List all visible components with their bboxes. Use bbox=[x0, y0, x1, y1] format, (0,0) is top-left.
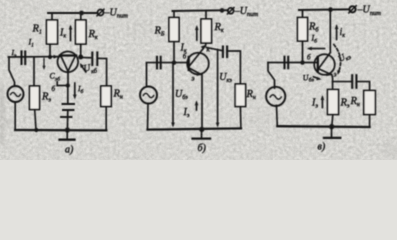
wire Re top lead bbox=[33, 57, 35, 86]
arrow I1 down bbox=[43, 59, 46, 71]
wire base cap leads bbox=[67, 86, 69, 105]
resistor R1 bbox=[47, 20, 58, 44]
ground symbol bbox=[60, 130, 75, 140]
node base junction bbox=[172, 60, 177, 65]
arrow Ib left bbox=[307, 47, 325, 51]
svg-text:б): б) bbox=[198, 143, 207, 154]
svg-text:б: б bbox=[307, 54, 311, 62]
wire base input bbox=[147, 62, 189, 64]
supply rail (top wire) bbox=[48, 12, 97, 14]
wire base input bbox=[268, 62, 317, 64]
supply rail bbox=[173, 9, 229, 12]
arrow Ie up bbox=[195, 100, 199, 110]
resistor Rk bbox=[76, 20, 87, 44]
resistor Re bbox=[30, 86, 40, 110]
node ground junction bbox=[329, 124, 334, 129]
wire cap to Rn bbox=[357, 82, 370, 91]
wire Rk top stub bbox=[205, 11, 207, 20]
wire R1 bottom lead bbox=[49, 44, 51, 57]
capacitor C_b plates bbox=[61, 104, 74, 117]
wire cap to Rn bbox=[98, 58, 107, 86]
wire RB bottom lead bbox=[173, 42, 175, 63]
wire Rn bottom lead bbox=[369, 115, 371, 128]
terminal -U pit bbox=[349, 6, 356, 13]
node base junction bbox=[300, 60, 305, 65]
svg-text:э: э bbox=[334, 71, 337, 79]
wire R2 top stub bbox=[80, 13, 82, 20]
arrow emitter bbox=[196, 72, 202, 76]
wire Rb bottom lead bbox=[302, 41, 304, 63]
arrow Ik up bbox=[69, 25, 73, 41]
node Re-ground junction bbox=[34, 128, 38, 132]
node rail junction bbox=[328, 7, 333, 12]
resistor Re bbox=[328, 90, 339, 115]
resistor Rk bbox=[201, 19, 212, 43]
ground rail bottom wire bbox=[277, 125, 369, 128]
wire emitter down bbox=[201, 75, 203, 130]
svg-text:б: б bbox=[183, 53, 187, 61]
terminal -U pit bbox=[97, 9, 104, 16]
node ground junction bbox=[65, 127, 70, 132]
ground symbol bbox=[324, 127, 340, 138]
capacitor C1 input bbox=[285, 57, 289, 68]
generator G1 bbox=[8, 57, 24, 130]
arrow U_be bbox=[314, 77, 322, 81]
tick bbox=[56, 82, 58, 86]
wire emitter input bbox=[9, 56, 60, 58]
arrow U_ke dashed bbox=[334, 45, 341, 75]
transistor VT1 bbox=[58, 52, 79, 73]
wire Rn bottom lead bbox=[105, 107, 107, 131]
resistor Rn bbox=[235, 84, 245, 107]
ground rail bottom wire bbox=[148, 128, 242, 129]
resistor Rn bbox=[364, 91, 376, 115]
wire base lead down bbox=[67, 70, 69, 85]
svg-text:э: э bbox=[192, 75, 195, 83]
capacitor C2 output bbox=[92, 53, 97, 66]
wire Re bottom lead bbox=[35, 110, 36, 131]
ground rail bottom wire bbox=[15, 129, 106, 132]
wire collector stub bbox=[205, 43, 208, 46]
generator G2 bbox=[140, 63, 157, 130]
arrow Ik up bbox=[195, 25, 199, 40]
wire collector down bbox=[329, 10, 331, 53]
arrow Ie up bbox=[321, 95, 325, 108]
node rail junction bbox=[220, 8, 225, 13]
arrow Ik up bbox=[335, 24, 339, 40]
transistor VT2 bbox=[187, 46, 209, 74]
wire cap to Rn bbox=[227, 51, 240, 84]
emitter arrow bbox=[54, 55, 59, 59]
arrow Ib down bbox=[73, 83, 77, 100]
wire R1 top stub bbox=[51, 13, 53, 20]
terminal -U pit bbox=[227, 8, 234, 14]
capacitor C2 output bbox=[223, 47, 227, 58]
wire emitter node bbox=[331, 75, 334, 90]
wire collector to cap bbox=[80, 44, 82, 57]
node emitter-R1 junction bbox=[48, 55, 52, 59]
supply rail bbox=[299, 8, 348, 11]
arrow U_kb bbox=[80, 63, 86, 72]
capacitor C1 input bbox=[157, 57, 161, 69]
node junction on rail bbox=[79, 11, 84, 16]
paper background bbox=[0, 0, 397, 160]
resistor Rn bbox=[101, 86, 111, 107]
node base junction bbox=[66, 83, 70, 87]
transistor VT3 bbox=[314, 53, 335, 75]
arrow collector bbox=[201, 45, 206, 50]
resistor Rb bbox=[298, 18, 308, 42]
arrow emitter bbox=[326, 73, 332, 77]
wire Rb top stub bbox=[302, 10, 304, 18]
capacitor C2 output bbox=[352, 75, 356, 88]
wire emitter output tap bbox=[333, 81, 351, 83]
svg-text:б: б bbox=[52, 85, 56, 93]
wire base horizontal tick bbox=[57, 85, 68, 87]
wire Re bottom lead bbox=[332, 115, 333, 127]
capacitor C1 input bbox=[22, 52, 26, 65]
ground symbol bbox=[193, 129, 211, 138]
svg-text:в): в) bbox=[318, 142, 326, 153]
arrow U_be down bbox=[171, 64, 175, 128]
node collector junction bbox=[78, 55, 83, 60]
arrow U_ke down bbox=[216, 50, 220, 128]
svg-text:а): а) bbox=[65, 145, 74, 156]
node ground junction bbox=[199, 127, 204, 132]
wire RB top stub bbox=[173, 11, 175, 18]
resistor RB bbox=[169, 18, 179, 42]
generator G3 bbox=[266, 63, 285, 127]
wire collector output bbox=[207, 48, 222, 51]
wire Rn bottom lead bbox=[239, 107, 242, 129]
